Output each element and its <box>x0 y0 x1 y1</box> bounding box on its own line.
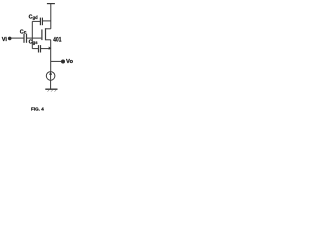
svg-text:gd: gd <box>33 15 39 20</box>
current source I <box>46 72 55 81</box>
current source arrowhead <box>49 72 52 75</box>
capacitor Cc <box>24 34 41 43</box>
supply rail T <box>47 3 55 5</box>
transistor 401 <box>42 28 51 40</box>
wire drain vertical <box>50 4 52 29</box>
svg-text:c: c <box>24 30 27 35</box>
capacitor Cgs <box>32 45 50 52</box>
svg-text:gs: gs <box>33 40 39 45</box>
svg-text:FIG. 4: FIG. 4 <box>31 107 44 113</box>
wire gate branch vertical <box>31 21 33 48</box>
wire source vertical <box>50 40 52 72</box>
node Vi dot <box>8 37 12 41</box>
wire to ground <box>50 80 52 89</box>
svg-text:401: 401 <box>53 38 62 44</box>
ground <box>45 88 57 90</box>
wire input <box>11 37 24 39</box>
source arrow <box>49 47 52 50</box>
capacitor Cgd <box>32 18 51 26</box>
svg-text:Vi: Vi <box>2 37 8 43</box>
ground hatches <box>48 90 57 92</box>
svg-text:Vo: Vo <box>66 59 73 65</box>
wire output <box>51 60 62 62</box>
node Vo dot <box>61 60 65 64</box>
